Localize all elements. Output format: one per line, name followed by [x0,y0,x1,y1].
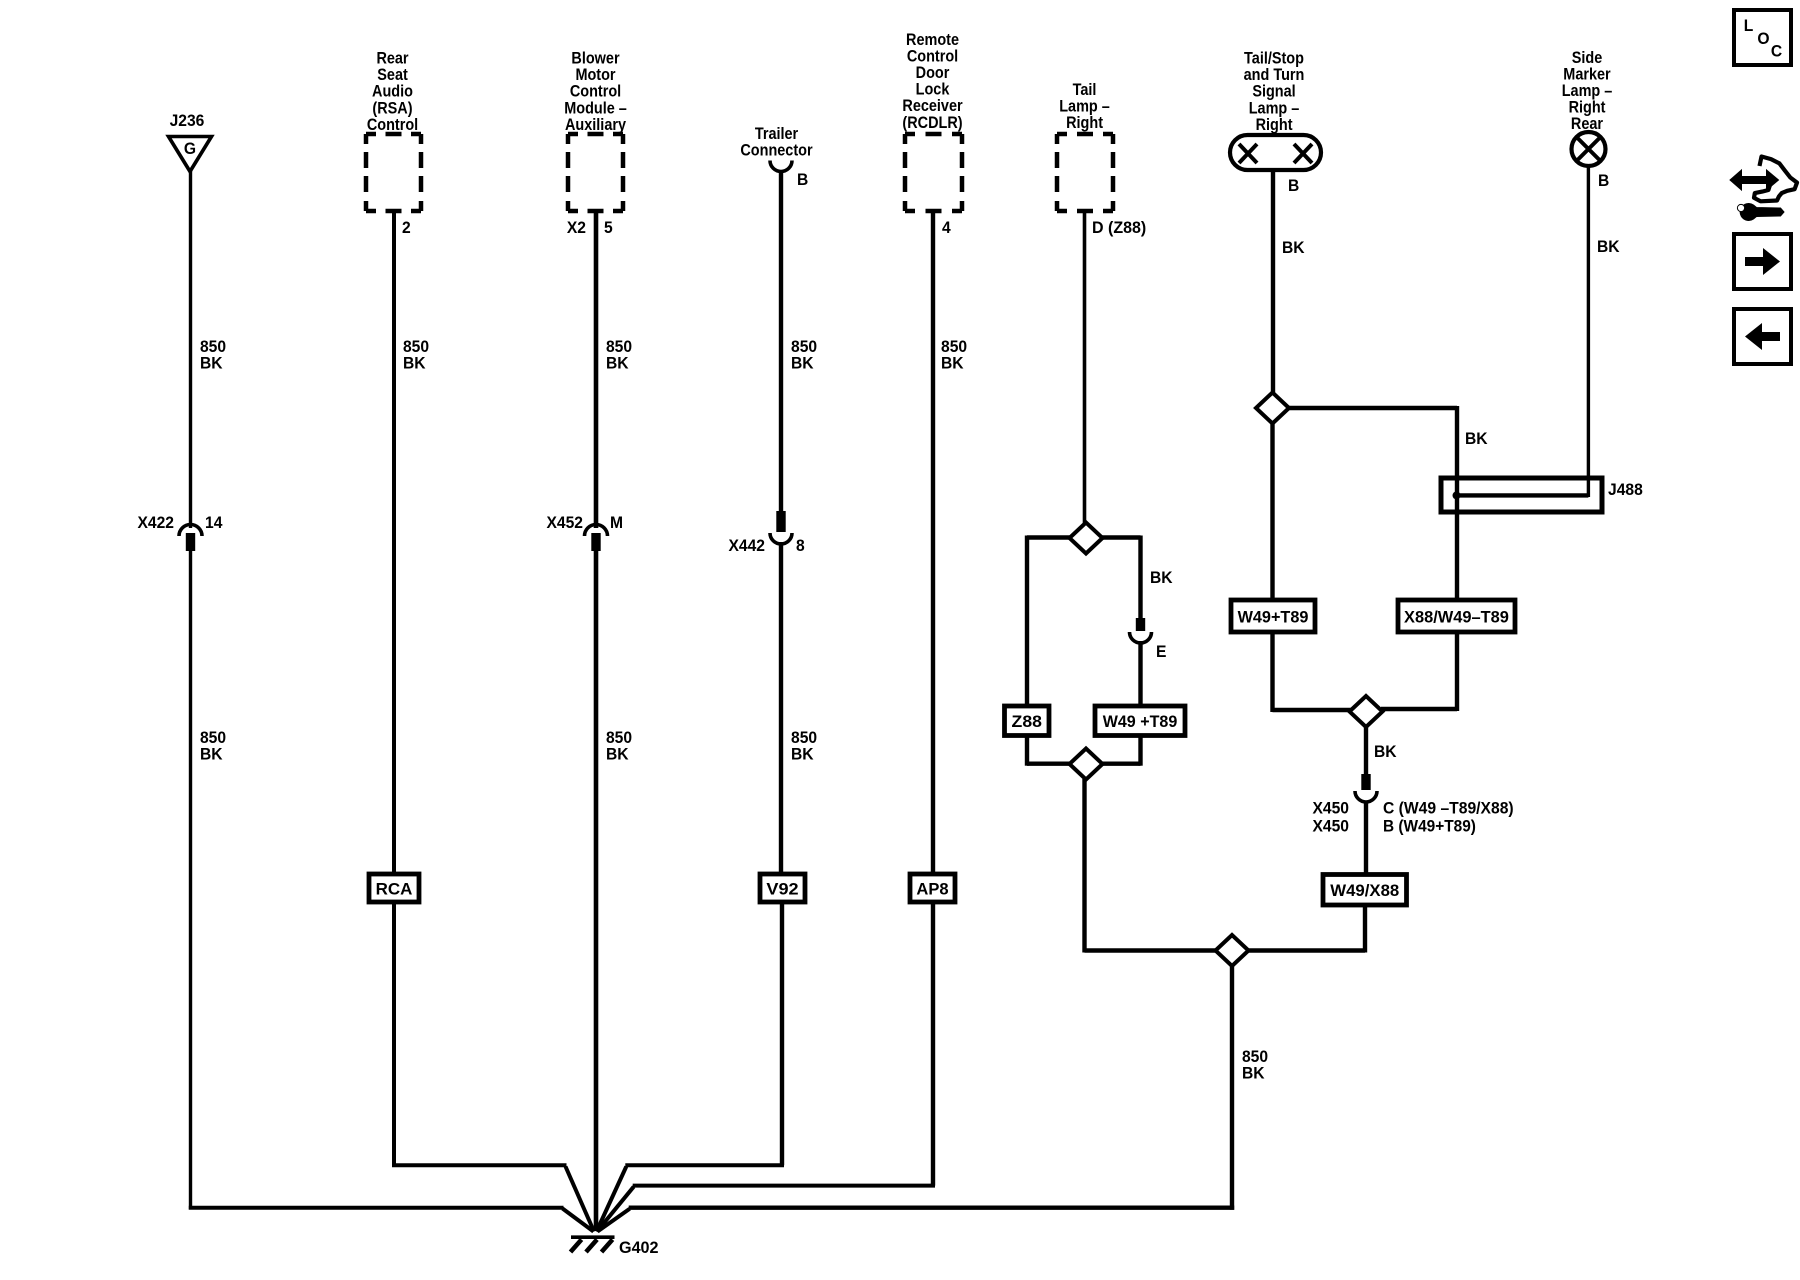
svg-text:W49+T89: W49+T89 [1238,608,1309,627]
wire diagonal RCA to G402 [566,1167,595,1232]
wire V92 to bottom [780,902,784,1165]
svg-text:Seat: Seat [377,66,408,84]
svg-text:BK: BK [606,745,629,764]
svg-text:Right: Right [1066,114,1104,132]
svg-text:B: B [797,170,808,189]
wire AP8 to bottom [931,902,935,1186]
connector X450 [1361,774,1370,790]
svg-text:BK: BK [1242,1064,1265,1083]
svg-text:Tail: Tail [1073,81,1097,99]
wire W49+T89 down to diamond [1270,632,1274,712]
wire X88/W49-T89 down to diamond [1455,632,1459,711]
wire trailer below X442 [779,542,783,874]
svg-text:D (Z88): D (Z88) [1092,218,1146,237]
svg-text:X2: X2 [567,218,586,237]
wire side marker joining inside J488 [1457,493,1588,497]
svg-text:L: L [1744,16,1754,35]
connector X422 [179,525,202,537]
legend LOC box [1734,10,1791,65]
svg-text:X442: X442 [728,536,765,555]
svg-text:O: O [1757,29,1769,48]
legend arrow-right box [1734,234,1791,289]
wire blower to ground G402 [594,549,599,1231]
wire tail-lamp branch to lower bus [1082,779,1086,953]
svg-text:B: B [1598,171,1609,190]
svg-text:Lamp –: Lamp – [1562,82,1613,100]
svg-text:Right: Right [1256,116,1294,134]
legend arrow-left box [1734,309,1791,364]
splice diamond junction (tail lamp top) [1070,523,1103,554]
wire Z88 to bottom diamond [1025,736,1029,766]
splice diamond junction (tail lamp bottom) [1070,749,1103,780]
wire X450 down to W49/X88 [1364,801,1368,875]
svg-text:Rear: Rear [376,49,408,67]
svg-text:Lamp –: Lamp – [1249,99,1300,117]
svg-text:8: 8 [796,536,805,555]
svg-text:Right: Right [1569,99,1607,117]
svg-text:BK: BK [1597,237,1620,256]
svg-text:Tail/Stop: Tail/Stop [1244,49,1304,67]
component RCDLR dashed box [905,134,962,211]
svg-text:Z88: Z88 [1012,712,1042,731]
trailer connector cup symbol [770,161,792,172]
ground symbol G402 [571,1235,615,1239]
net W49/X88 box [1323,875,1407,906]
svg-text:BK: BK [200,354,223,373]
svg-text:Remote: Remote [906,31,959,49]
svg-text:X452: X452 [546,513,583,532]
wire trailer down to X442 [779,170,783,513]
wire tail-lamp left branch [1027,535,1071,539]
junction dot in J488 [1453,491,1461,499]
svg-text:Blower: Blower [571,49,619,67]
svg-text:J488: J488 [1608,480,1643,499]
wire J236 down to connector X422 [189,171,192,528]
wire tail lamp down to splice diamond [1083,211,1087,523]
svg-text:Trailer: Trailer [755,125,798,143]
splice diamond junction (tail/stop) [1256,393,1289,424]
ground symbol G triangle J236 [169,137,212,172]
svg-text:Audio: Audio [372,83,413,101]
svg-text:M: M [610,513,623,532]
svg-text:X88/W49–T89: X88/W49–T89 [1404,608,1509,627]
wire tail/stop lamp down to diamond [1271,170,1275,394]
svg-text:V92: V92 [766,880,798,899]
svg-text:C (W49 –T89/X88): C (W49 –T89/X88) [1383,799,1514,818]
svg-text:Side: Side [1572,49,1603,67]
svg-text:BK: BK [1374,742,1397,761]
svg-text:and Turn: and Turn [1244,66,1305,84]
svg-text:B: B [1288,176,1299,195]
svg-text:14: 14 [205,513,222,532]
net X88/W49-T89 box [1398,600,1515,632]
wire blower down to X452 [594,211,599,528]
svg-text:B (W49+T89): B (W49+T89) [1383,817,1476,836]
svg-text:Lamp –: Lamp – [1059,97,1110,115]
wire main through J488 [1455,480,1459,601]
svg-text:W49 +T89: W49 +T89 [1103,712,1178,731]
svg-text:BK: BK [403,354,426,373]
splice diamond junction (ground bus) [1216,935,1249,966]
svg-text:X450: X450 [1312,799,1349,818]
wire tail/stop down to W49+T89 [1270,422,1274,601]
wire diagonal AP8 to G402 [597,1187,634,1232]
wire tail-lamp right branch [1100,535,1141,539]
splice AP8 box [910,874,955,902]
svg-text:5: 5 [604,218,613,237]
svg-text:G: G [184,139,196,158]
svg-text:Module –: Module – [564,99,627,117]
svg-text:Lock: Lock [916,81,950,99]
wire RSA down [392,211,396,874]
wire bus diamond down [1230,965,1234,1210]
lamp symbol Tail/Stop (stadium with two X) [1230,135,1321,170]
svg-text:Control: Control [570,83,621,101]
svg-text:J236: J236 [170,111,205,130]
svg-text:2: 2 [402,218,411,237]
svg-text:Connector: Connector [740,142,812,160]
wire W49/X88 down to bus diamond [1363,905,1367,953]
wire diagonal J236 to G402 [563,1209,594,1232]
wire J236 bottom bus to ground [189,1206,564,1210]
wire RCA to bottom [392,902,396,1165]
splice RCA box [369,874,419,902]
wire right bus to ground [629,1205,1234,1209]
legend vehicle/wrench icon [1730,157,1797,221]
component Tail Lamp dashed box [1057,134,1113,211]
splice J488 box [1441,478,1602,512]
component Blower dashed box [568,134,623,211]
splice diamond junction (W49 X88 merge) [1350,696,1383,727]
lamp symbol Side Marker (circle with X) [1572,132,1606,166]
svg-text:AP8: AP8 [916,880,948,899]
svg-text:BK: BK [1465,429,1488,448]
svg-text:Door: Door [916,64,950,82]
connector X452 [585,525,608,537]
svg-text:Receiver: Receiver [902,97,962,115]
svg-text:Signal: Signal [1252,83,1295,101]
wire diagonal V92 to G402 [597,1167,627,1232]
wire J236 below X422 [189,549,192,1210]
svg-text:Control: Control [367,116,418,134]
svg-text:X422: X422 [137,513,174,532]
svg-text:BK: BK [791,745,814,764]
svg-text:W49/X88: W49/X88 [1330,881,1399,900]
component RSA Control dashed box [366,134,421,211]
net W49 +T89 box [1095,706,1185,736]
svg-text:(RSA): (RSA) [372,99,412,117]
svg-text:X450: X450 [1312,817,1349,836]
connector X442 [776,511,785,532]
wire AP8 horizontal [633,1184,935,1188]
wire diamond to J488 (right branch) [1288,406,1457,410]
wire RCDLR down [931,211,935,874]
svg-text:Motor: Motor [575,66,615,84]
wire W49+T89 to bottom diamond [1138,736,1142,766]
wire diagonal right bus to G402 [598,1209,630,1232]
svg-text:RCA: RCA [376,880,413,899]
wire V92 horizontal [625,1163,784,1167]
svg-text:Marker: Marker [1563,65,1610,83]
svg-text:Auxiliary: Auxiliary [565,116,626,134]
svg-text:Control: Control [907,47,958,65]
wire side marker down to J488 [1587,166,1590,497]
connector E symbol [1136,618,1145,631]
wire E to W49 +T89 [1138,641,1142,707]
svg-text:E: E [1156,642,1167,661]
svg-text:BK: BK [941,354,964,373]
svg-text:G402: G402 [619,1238,659,1257]
net Z88 box [1005,706,1050,736]
svg-text:BK: BK [200,745,223,764]
svg-text:BK: BK [606,354,629,373]
net W49+T89 box (tail/stop) [1231,600,1315,632]
svg-text:(RCDLR): (RCDLR) [902,114,962,132]
splice V92 box [760,874,805,902]
svg-text:C: C [1771,42,1782,61]
svg-text:BK: BK [1150,568,1173,587]
wire diamond down to X450 [1364,726,1368,776]
svg-text:4: 4 [942,218,951,237]
svg-text:BK: BK [791,354,814,373]
wire RCA horizontal [392,1163,567,1167]
svg-text:BK: BK [1282,238,1305,257]
